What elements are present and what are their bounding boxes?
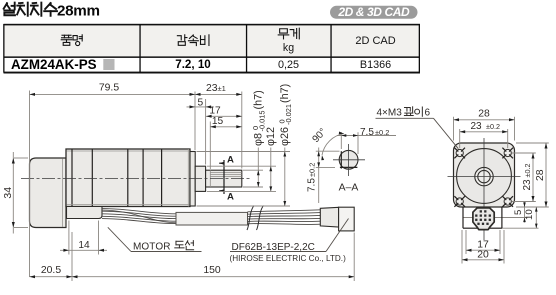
svg-text:5: 5: [513, 210, 524, 215]
front view pilot circle φ26: [457, 149, 512, 204]
svg-text:±0.2: ±0.2: [523, 164, 532, 178]
svg-text:34: 34: [3, 187, 14, 199]
svg-text:5: 5: [197, 98, 203, 109]
svg-text:(h7): (h7): [253, 90, 265, 109]
front view center lines: [448, 138, 521, 240]
svg-text:23: 23: [206, 83, 218, 94]
svg-text:15: 15: [212, 116, 224, 127]
svg-text:7.5: 7.5: [360, 127, 374, 138]
cable bundle after break: [248, 210, 321, 225]
svg-text:DF62B-13EP-2,2C: DF62B-13EP-2,2C: [232, 242, 315, 253]
label 4×M3 깊이6 (tap depth 6): [376, 107, 459, 149]
svg-text:MOTOR: MOTOR: [133, 242, 171, 253]
dimension 23±0.2 (front top): [460, 121, 508, 148]
svg-text:±0.2: ±0.2: [486, 122, 500, 131]
svg-text:φ26: φ26: [279, 127, 291, 146]
front view shaft circles φ12/φ8: [475, 167, 493, 185]
table cell 0,25: [278, 59, 299, 71]
dimension 5 and 10 (front right): [513, 202, 539, 228]
dimension 28 (front right): [516, 143, 549, 207]
dimension 23±0.2 (front right): [512, 153, 536, 202]
svg-text:(h7): (h7): [279, 84, 291, 103]
svg-text:14: 14: [78, 240, 90, 251]
table header 품명: [61, 35, 82, 46]
title 설치치수28mm: [4, 3, 100, 20]
svg-text:20: 20: [477, 249, 489, 260]
label A-A: [339, 183, 359, 194]
front view connector housing: [463, 207, 539, 228]
table header 2D CAD: [355, 35, 395, 47]
table cell B1366: [360, 59, 391, 71]
svg-text:28: 28: [478, 109, 490, 120]
svg-text:B1366: B1366: [360, 59, 391, 71]
svg-text:A–A: A–A: [339, 183, 359, 194]
A-A section shaft circle with flats: [333, 144, 365, 176]
cable exit housing (side view): [67, 207, 103, 219]
svg-text:φ8: φ8: [253, 133, 265, 146]
front view square flange 28×28: [454, 143, 515, 207]
svg-text:kg: kg: [283, 42, 294, 54]
svg-text:10: 10: [524, 209, 535, 220]
svg-text:A: A: [227, 191, 234, 202]
dimension φ12: [207, 127, 277, 191]
dimension 20.5 and 150: [30, 232, 355, 281]
dimension 7.5±0.2 (horizontal): [337, 127, 396, 154]
svg-text:AZM24AK-PS: AZM24AK-PS: [11, 57, 97, 72]
label DF62B-13EP-2,2C (HIROSE ELECTRIC Co., LTD.): [230, 219, 349, 264]
svg-text:2D & 3D CAD: 2D & 3D CAD: [337, 5, 410, 19]
svg-text:±0.2: ±0.2: [375, 128, 389, 137]
svg-text:28mm: 28mm: [57, 3, 100, 20]
dimension 79.5 and 23±1: [30, 83, 242, 277]
svg-text:17: 17: [209, 106, 221, 117]
dimension φ26 h7: [197, 84, 294, 206]
center line (shaft axis): [21, 178, 251, 180]
motor lead wires: [102, 209, 176, 224]
motor rear housing (side view): [30, 158, 67, 228]
table header 무게 kg: [278, 28, 299, 54]
dimension 17 (front bottom): [466, 230, 500, 254]
svg-text:φ12: φ12: [265, 127, 277, 146]
section cut line A-A: [219, 155, 234, 203]
shaft step φ12 (side view): [195, 166, 205, 191]
dimension 34: [3, 152, 28, 234]
svg-text:0,25: 0,25: [278, 59, 299, 71]
svg-text:23: 23: [470, 121, 482, 132]
svg-text:150: 150: [203, 265, 221, 276]
svg-text:28: 28: [535, 169, 546, 181]
badge 2D & 3D CAD: [330, 5, 418, 19]
svg-text:(HIROSE ELECTRIC Co., LTD.): (HIROSE ELECTRIC Co., LTD.): [230, 254, 347, 263]
table frame: [3, 24, 420, 74]
dimension φ8 h7: [243, 90, 267, 187]
svg-text:79.5: 79.5: [99, 83, 119, 94]
svg-text:±0.2: ±0.2: [308, 163, 317, 177]
svg-text:20.5: 20.5: [41, 265, 61, 276]
svg-text:0: 0: [277, 119, 286, 123]
dimension 5: [187, 98, 215, 165]
svg-text:±1: ±1: [218, 84, 226, 93]
dimension 17: [206, 106, 242, 118]
svg-text:2D CAD: 2D CAD: [355, 35, 395, 47]
dimension 28 (front top): [454, 109, 515, 141]
cable break symbol: [247, 206, 264, 231]
front view 4×M3 mounting holes: [454, 148, 513, 207]
table cell AZM24AK-PS■: [11, 57, 115, 72]
svg-text:7.5: 7.5: [307, 178, 318, 192]
dimension 15: [210, 116, 242, 169]
output shaft φ8 with flats (side view): [206, 170, 242, 187]
dimension 14: [60, 221, 107, 255]
dimension 90°: [310, 127, 343, 161]
svg-text:23: 23: [522, 179, 533, 191]
pilot boss φ26 (side view): [188, 149, 195, 207]
dimension 20 (front bottom): [462, 230, 504, 264]
svg-text:7.2, 10: 7.2, 10: [175, 58, 210, 71]
table cell 7.2, 10: [175, 58, 210, 71]
connector DF62B (side view): [320, 207, 354, 231]
label MOTOR 도선 (lead wires): [108, 227, 202, 252]
svg-text:90°: 90°: [310, 127, 328, 146]
motor main body (side view): [66, 149, 190, 207]
cable sleeve: [176, 212, 248, 225]
svg-text:4×M3: 4×M3: [377, 107, 403, 118]
svg-text:6: 6: [425, 107, 431, 118]
table header 감속비: [177, 35, 209, 46]
svg-text:A: A: [227, 155, 234, 166]
front view DF62B connector with pins: [473, 208, 494, 230]
dimension 7.5±0.2 (vertical): [307, 148, 340, 204]
svg-text:0: 0: [251, 126, 260, 130]
